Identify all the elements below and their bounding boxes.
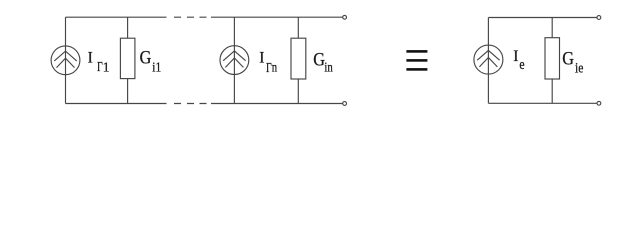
svg-text:I: I — [513, 48, 518, 65]
svg-text:I: I — [259, 49, 264, 66]
svg-text:in: in — [324, 59, 332, 74]
svg-text:G: G — [140, 47, 152, 68]
svg-text:i1: i1 — [152, 59, 161, 74]
svg-text:I: I — [88, 50, 93, 67]
svg-text:ie: ie — [575, 59, 584, 76]
svg-text:G: G — [313, 49, 325, 70]
svg-text:G: G — [562, 48, 574, 69]
svg-text:1: 1 — [103, 59, 110, 74]
svg-text:e: e — [519, 55, 524, 72]
svg-text:n: n — [272, 60, 277, 75]
